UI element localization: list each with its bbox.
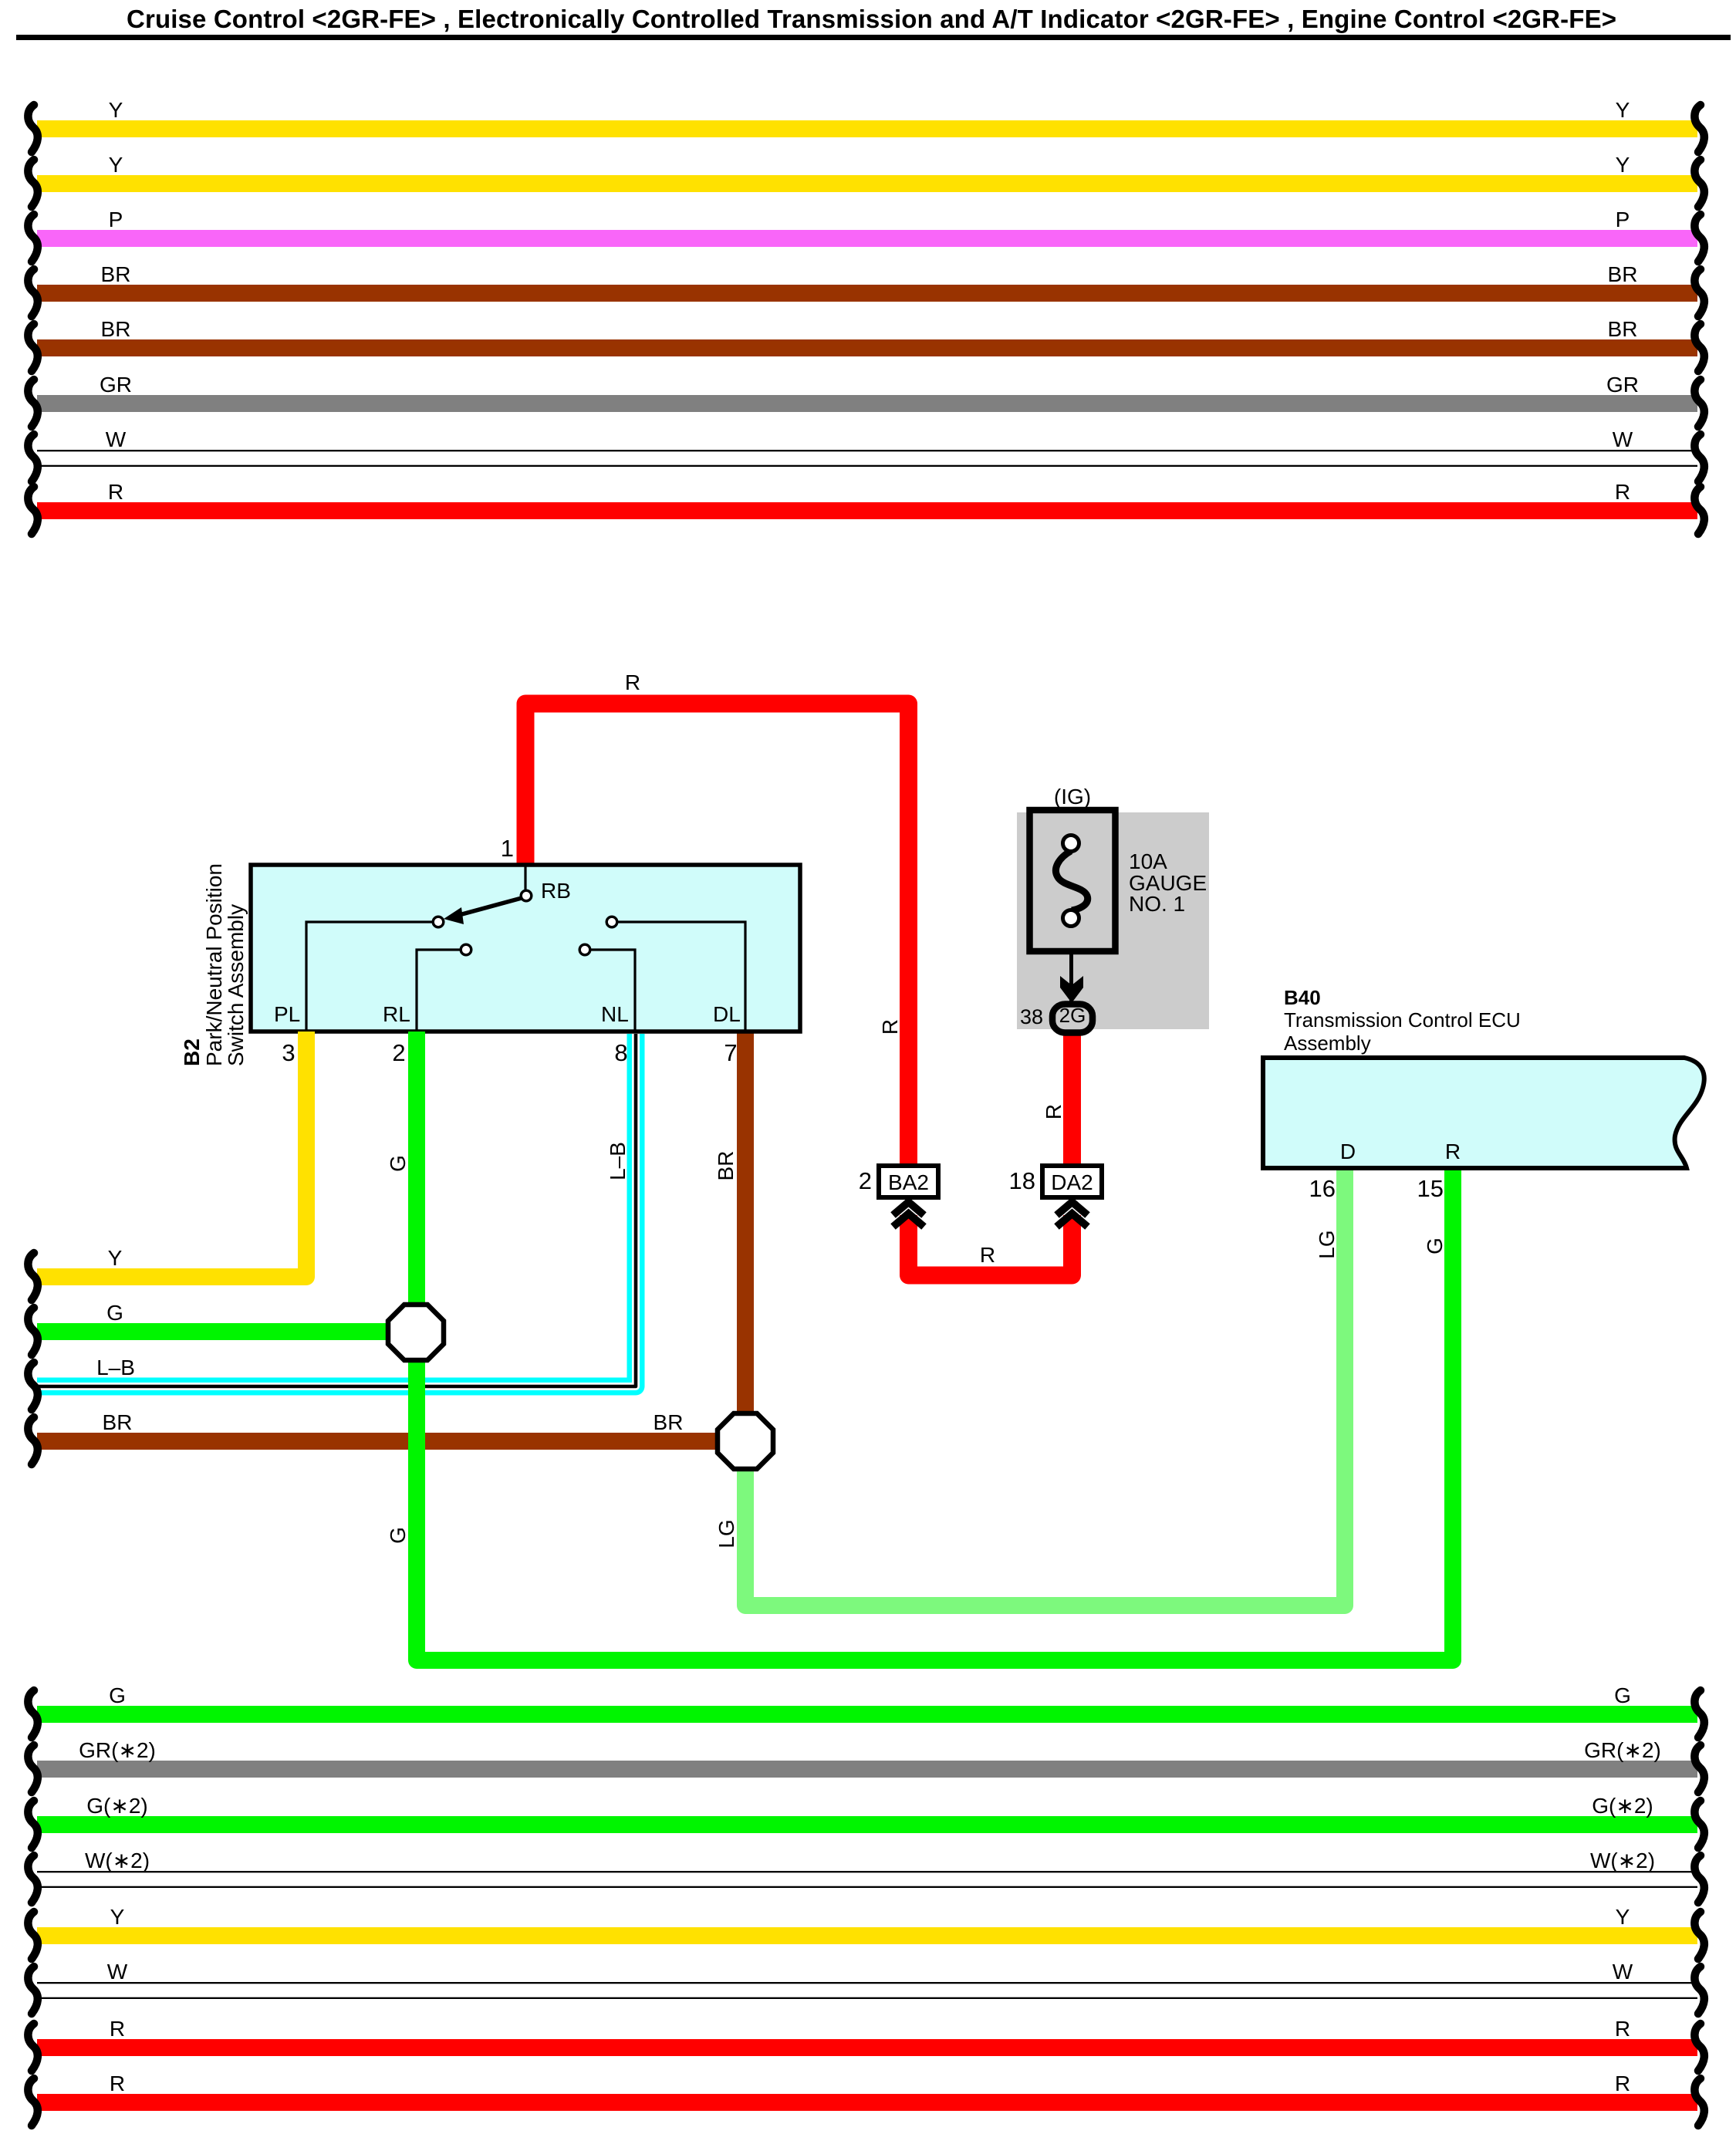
svg-text:BR: BR [714, 1151, 738, 1181]
wire W (top row y=594) [37, 450, 1697, 451]
svg-text:Y: Y [108, 1246, 123, 1270]
wire Y (bottom row y=2509) [37, 1927, 1697, 1944]
svg-text:R: R [110, 2017, 125, 2041]
svg-text:RB: RB [541, 879, 571, 903]
junction J2 (BR/LG splice octagon) [718, 1413, 773, 1469]
svg-text:GR: GR [100, 373, 132, 397]
svg-text:3: 3 [282, 1039, 295, 1066]
wire G(&#8727;2) (bottom row y=2365) [37, 1816, 1697, 1833]
svg-text:R: R [878, 1019, 902, 1035]
wire R (bottom row y=2725) [37, 2094, 1697, 2111]
wire L-B from break to PNP pin 8 (striped) [37, 1034, 636, 1386]
wire Y (top row y=238) [37, 175, 1697, 192]
wire G (bottom row y=2222) [37, 1706, 1697, 1723]
arrow from fuse to connector 2G [1069, 951, 1073, 1001]
wire R from connector 2G to DA2 [1063, 1026, 1081, 1166]
svg-text:Y: Y [1616, 98, 1630, 122]
wire G from break to junction [37, 1323, 417, 1340]
wire R from BA2 down, right, up to DA2 [909, 1215, 1072, 1275]
svg-text:NO. 1: NO. 1 [1129, 892, 1185, 916]
svg-text:W(∗2): W(∗2) [1590, 1849, 1655, 1872]
svg-text:10A: 10A [1129, 849, 1167, 873]
svg-text:G: G [386, 1527, 410, 1544]
svg-text:RL: RL [383, 1002, 410, 1026]
wire W(&#8727;2) (bottom row y=2436) [37, 1871, 1697, 1872]
svg-text:NL: NL [601, 1002, 629, 1026]
svg-text:W: W [107, 1960, 128, 1984]
svg-text:2G: 2G [1059, 1004, 1086, 1027]
svg-text:G: G [1614, 1683, 1631, 1707]
svg-text:1: 1 [501, 835, 514, 862]
chevrons below BA2 [893, 1202, 924, 1215]
PL contact circle and lead to pin 3 [433, 917, 444, 927]
svg-text:LG: LG [1315, 1230, 1339, 1258]
wire BR (top row y=380) [37, 285, 1697, 302]
svg-text:BA2: BA2 [888, 1170, 929, 1194]
svg-text:R: R [1042, 1104, 1066, 1119]
svg-text:(IG): (IG) [1054, 785, 1091, 809]
svg-text:DL: DL [713, 1002, 741, 1026]
svg-text:Switch Assembly: Switch Assembly [224, 904, 248, 1066]
svg-text:W: W [1613, 427, 1633, 451]
svg-text:15: 15 [1417, 1175, 1444, 1202]
svg-text:R: R [1445, 1140, 1461, 1163]
svg-text:R: R [108, 480, 123, 504]
title underline bar [16, 35, 1731, 40]
wire P (top row y=309) [37, 230, 1697, 247]
svg-text:G(∗2): G(∗2) [1592, 1794, 1653, 1818]
wire R (top row y=662) [37, 502, 1697, 519]
svg-text:BR: BR [103, 1410, 133, 1434]
svg-text:G: G [109, 1683, 126, 1707]
svg-text:R: R [980, 1243, 995, 1267]
svg-text:BR: BR [1608, 317, 1638, 341]
svg-text:18: 18 [1009, 1167, 1035, 1194]
svg-text:Y: Y [109, 153, 123, 177]
connector BA2 [879, 1166, 938, 1197]
svg-text:G: G [1423, 1238, 1447, 1254]
svg-text:R: R [110, 2072, 125, 2095]
svg-text:GR: GR [1606, 373, 1639, 397]
svg-text:R: R [1615, 480, 1630, 504]
svg-text:Y: Y [1616, 1905, 1630, 1929]
switch arm with arrowhead [459, 898, 522, 915]
svg-text:P: P [1616, 208, 1630, 231]
svg-text:W: W [106, 427, 127, 451]
svg-text:BR: BR [654, 1410, 684, 1434]
svg-text:Y: Y [109, 98, 123, 122]
RL contact circle and lead to pin 2 [461, 944, 471, 955]
svg-text:G: G [386, 1155, 410, 1172]
pin 1 lead inside PNP box [524, 866, 526, 890]
svg-text:R: R [625, 670, 640, 694]
connector 2G oval [1052, 1005, 1093, 1033]
wire stubs below PNP box: Y pin3 / G pin2 / L-B pin8 / BR pin7 drawn above [298, 1032, 315, 1039]
svg-text:BR: BR [101, 317, 131, 341]
wire Y from break to PNP pin 3 [37, 1034, 306, 1277]
svg-text:LG: LG [714, 1519, 738, 1548]
wire BR from break to junction, and from PNP pin 7 down [37, 1433, 745, 1450]
chevrons below DA2 [1057, 1202, 1088, 1215]
svg-text:2: 2 [859, 1167, 872, 1194]
svg-text:8: 8 [614, 1039, 627, 1066]
svg-text:BR: BR [101, 262, 131, 286]
svg-text:Y: Y [1616, 153, 1630, 177]
fuse block gray background [1017, 812, 1209, 1029]
svg-text:P: P [109, 208, 123, 231]
wire R (bottom row y=2654) [37, 2039, 1697, 2056]
svg-text:W(∗2): W(∗2) [85, 1849, 150, 1872]
wire W (bottom row y=2580) [37, 1982, 1697, 1984]
wire LG from junction down, right, up to B40 pin 16 [745, 1168, 1345, 1606]
terminal RB circle [521, 890, 532, 901]
svg-text:2: 2 [392, 1039, 405, 1066]
svg-text:R: R [1615, 2017, 1630, 2041]
wire GR(&#8727;2) (bottom row y=2293) [37, 1761, 1697, 1778]
switch B2 Park/Neutral Position Switch Assembly box [251, 865, 800, 1032]
svg-text:Transmission Control ECU: Transmission Control ECU [1284, 1008, 1521, 1032]
svg-text:Cruise Control <2GR-FE> , Elec: Cruise Control <2GR-FE> , Electronically… [127, 5, 1616, 33]
connector DA2 [1042, 1166, 1102, 1197]
svg-text:Park/Neutral Position: Park/Neutral Position [202, 863, 226, 1066]
fuse 10A GAUGE NO.1 rectangle [1030, 810, 1116, 951]
svg-text:PL: PL [274, 1002, 300, 1026]
wire BR (top row y=451) [37, 339, 1697, 356]
svg-text:B40: B40 [1284, 986, 1321, 1009]
svg-text:Y: Y [110, 1905, 125, 1929]
svg-text:GR(∗2): GR(∗2) [79, 1738, 156, 1762]
svg-text:G(∗2): G(∗2) [86, 1794, 147, 1818]
NL contact circle and lead to pin 8 [579, 944, 590, 955]
svg-text:L–B: L–B [606, 1142, 630, 1180]
svg-text:BR: BR [1608, 262, 1638, 286]
svg-text:Assembly: Assembly [1284, 1032, 1371, 1055]
svg-text:B2: B2 [180, 1038, 204, 1066]
fuse element S-curve [1055, 851, 1087, 910]
svg-text:W: W [1613, 1960, 1633, 1984]
wire G from PNP pin 2 down through junction, right, up to B40 pin 15 [417, 1032, 1453, 1660]
wire R from PNP pin 1 up/right/down to connector BA2 [525, 704, 909, 1166]
junction J1 (G splice octagon) [388, 1305, 444, 1360]
svg-text:D: D [1340, 1140, 1356, 1163]
DL contact circle and lead to pin 7 [606, 917, 617, 927]
svg-text:R: R [1615, 2072, 1630, 2095]
svg-text:GR(∗2): GR(∗2) [1584, 1738, 1661, 1762]
fuse terminal circles [1063, 836, 1079, 852]
wire Y (top row y=167) [37, 120, 1697, 137]
ECU B40 Transmission Control ECU Assembly box [1263, 1058, 1704, 1168]
svg-text:38: 38 [1020, 1005, 1043, 1028]
svg-text:DA2: DA2 [1051, 1170, 1093, 1194]
svg-text:7: 7 [724, 1039, 737, 1066]
svg-text:16: 16 [1309, 1175, 1336, 1202]
svg-text:L–B: L–B [96, 1356, 135, 1379]
wire GR (top row y=523) [37, 395, 1697, 412]
svg-text:G: G [106, 1301, 123, 1325]
